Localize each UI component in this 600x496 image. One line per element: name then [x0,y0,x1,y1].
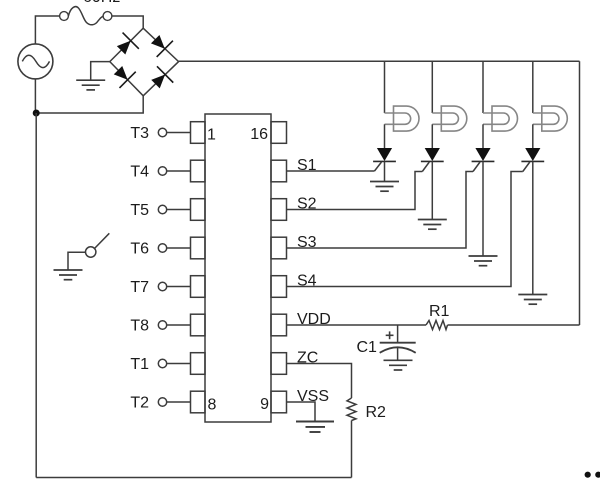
svg-text:T7: T7 [130,279,149,296]
wire: drop to lamp L3 [482,61,484,113]
svg-text:9: 9 [260,396,269,413]
thyristor Q3 [472,148,495,256]
svg-text:T1: T1 [130,356,149,373]
ground at C1 [384,360,413,370]
lamp L4 [533,106,568,131]
wire: bridge left vertex to ground [91,62,110,81]
lamp L3 [483,106,518,131]
lamp L2 [432,106,467,131]
wire: R1 to right rail [448,324,580,326]
ground at VSS [296,422,334,433]
ground at Q2 [418,220,447,230]
svg-text:T6: T6 [130,241,149,258]
svg-text:R2: R2 [366,404,387,421]
wire ZC net [287,364,352,399]
wire: right edge rail down to VDD line [579,61,581,325]
thyristor Q4 [521,148,544,295]
bridge diode upper-right [147,31,173,57]
bridge diode upper-left [113,33,139,59]
switch SW1 (touch contact) [68,233,109,270]
resistor R2 [347,398,386,421]
capacitor C1 [357,325,416,360]
bridge diode lower-left [110,62,136,88]
junction node at AC source bottom [33,110,40,117]
svg-text:1: 1 [207,127,216,144]
ground at Q1 [370,182,399,192]
ellipsis dots [585,472,600,478]
fuse F1 [60,7,112,25]
wire: lamp L4 to thyristor [532,124,534,148]
svg-text:C1: C1 [357,339,378,356]
pin T5 [130,202,190,219]
wire: top rail from bridge right vertex [179,60,580,62]
pin T8 [130,318,190,335]
svg-text:8: 8 [208,397,217,414]
ground at Q3 [469,256,498,266]
wire S1 net [287,170,375,172]
pin T1 [130,356,190,373]
IC U1 left pin boxes (pins 1-8) [191,122,206,413]
svg-text:T3: T3 [130,125,149,142]
AC source V1 [18,44,53,79]
wire: lamp L1 to thyristor [384,124,386,148]
wire: bottom rail [36,477,351,479]
wire: R2 to bottom rail [351,421,353,478]
ground at bridge [76,80,105,90]
pin T7 [130,279,190,296]
pin T3 [130,125,190,142]
wire: drop to lamp L2 [431,61,433,113]
wire: drop to lamp L4 [532,61,534,113]
wire S2 net [287,172,423,210]
svg-text:T2: T2 [130,395,149,412]
svg-text:60Hz: 60Hz [83,0,120,6]
thyristor Q2 [421,148,444,220]
IC U1 body [205,114,271,422]
svg-text:T8: T8 [130,318,149,335]
wire VDD net [287,324,427,326]
svg-text:16: 16 [250,126,268,143]
svg-text:T5: T5 [130,202,149,219]
IC U1 right pin boxes (pins 9-16) [271,122,287,413]
ground at switch [54,270,83,280]
svg-text:R1: R1 [429,303,450,320]
thyristor Q1 [373,148,396,182]
bridge diode lower-right [147,66,173,92]
bridge rectifier frame [110,28,179,96]
resistor R1 [426,303,450,330]
pin T2 [130,395,190,412]
lamp L1 [385,106,420,131]
pin T6 [130,241,190,258]
ground at Q4 [518,295,547,305]
wire: fuse to bridge top vertex [112,16,143,28]
wire: lamp L3 to thyristor [482,124,484,148]
wire: lamp L2 to thyristor [431,124,433,148]
svg-text:T4: T4 [130,164,149,181]
wire: left rail down [35,113,37,478]
wire VSS to ground [287,402,316,421]
wire S3 net [287,172,474,249]
wire: drop to lamp L1 [384,61,386,113]
wire: AC source bottom lead [34,79,36,113]
pin T4 [130,164,190,181]
wire: AC source top lead [35,16,59,44]
wire S4 net [287,172,523,287]
wire: bottom of source to bridge bottom vertex [35,96,143,113]
